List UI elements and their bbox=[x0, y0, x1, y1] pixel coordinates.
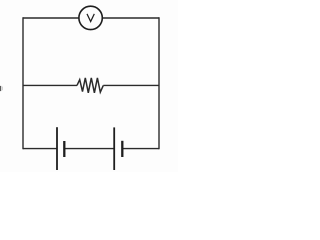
wire bottom-left segment bbox=[23, 148, 57, 150]
battery cell 1 long plate (+) bbox=[56, 127, 58, 170]
wire top-left segment bbox=[23, 17, 79, 19]
wire middle-right segment bbox=[103, 84, 159, 86]
wire bottom-right segment bbox=[122, 148, 159, 150]
voltmeter V1 circle bbox=[79, 6, 102, 29]
wire top-right segment bbox=[103, 17, 159, 19]
wire bottom-middle segment bbox=[64, 148, 114, 150]
resistor R bbox=[77, 78, 103, 93]
battery cell 2 short plate (-) bbox=[121, 141, 123, 157]
wire middle-left segment bbox=[23, 84, 77, 86]
voltmeter V1 label V bbox=[87, 14, 94, 22]
battery cell 1 short plate (-) bbox=[63, 141, 65, 157]
battery cell 2 long plate (+) bbox=[113, 127, 115, 170]
wire right vertical bbox=[158, 17, 160, 149]
stray cropped glyph at left edge bbox=[0, 86, 1, 91]
wire left vertical bbox=[22, 17, 24, 149]
